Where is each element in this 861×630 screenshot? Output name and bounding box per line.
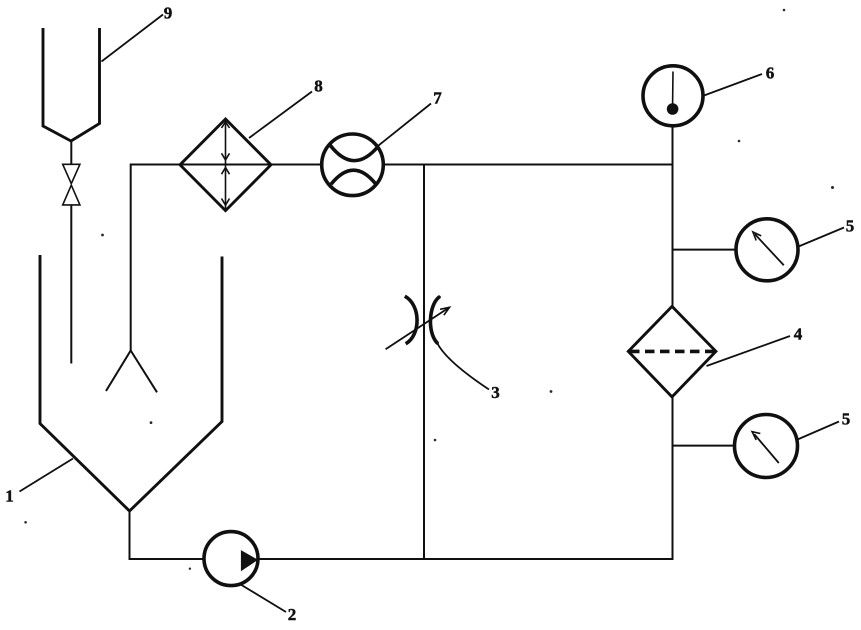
wire valve drip pipe into tank 1 (70, 205, 72, 364)
leader line 9 (102, 15, 164, 62)
valve (shut-off, bowtie) (63, 164, 80, 205)
wire tank9 to valve (70, 140, 72, 165)
filter 8 arrowhead down (upper middle) (222, 153, 230, 160)
leader line 6 (704, 74, 762, 96)
pressure gauge 5 (lower circle) (735, 415, 798, 478)
gauge 5 upper needle arrowhead (753, 232, 761, 241)
scan speck (24, 521, 27, 524)
scan speck (189, 568, 191, 570)
scan speck (550, 390, 553, 393)
svg-text:1: 1 (5, 487, 14, 506)
flow meter 7 lower arc (331, 170, 376, 184)
scan speck (434, 439, 437, 442)
wire right riser (thermometer down to filter 4) (672, 126, 674, 307)
pump 2 (circle) (204, 532, 258, 586)
diffuser Y outlet (106, 351, 157, 393)
wire stub to gauge 5 (lower) (673, 445, 735, 447)
leader line 7 (379, 104, 432, 146)
thermometer 6 bulb (667, 103, 679, 115)
filter 8 arrowhead up (lower middle) (222, 168, 230, 175)
scan speck (783, 9, 786, 12)
tank 1 (main reservoir with funnel bottom) (40, 255, 222, 511)
throttle valve 3 left arc (405, 296, 417, 344)
svg-text:8: 8 (314, 77, 323, 96)
flow meter 7 upper arc (330, 145, 378, 161)
svg-text:7: 7 (433, 89, 442, 108)
filter 4 dashed element line (630, 350, 714, 354)
leader line 2 (242, 585, 287, 612)
svg-text:9: 9 (164, 4, 173, 23)
thermometer 6 stem (672, 72, 674, 104)
throttle valve 3 adjustment arrow (386, 307, 450, 349)
leader line 1 (20, 459, 74, 492)
leader line 3 (curved) (437, 343, 489, 390)
wire middle riser (node to bottom line) (423, 165, 425, 560)
wire tank 1 outlet and bottom line left of pump (130, 510, 205, 559)
wire bottom line right of pump up right riser corner (258, 397, 673, 559)
wire stub to gauge 5 (upper) (673, 249, 737, 251)
leader line 4 (707, 336, 791, 366)
scan speck (150, 421, 153, 424)
scan speck (101, 234, 104, 237)
filter 4 (diamond) (628, 306, 716, 397)
thermometer 6 (circle) (643, 66, 703, 126)
svg-text:2: 2 (288, 605, 297, 624)
wire top line (right section to right riser) (383, 164, 672, 166)
flow meter 7 (circle) (322, 134, 384, 196)
svg-text:5: 5 (846, 217, 855, 236)
throttle valve 3 right arc (430, 297, 439, 343)
svg-text:5: 5 (842, 410, 851, 429)
filter 8 arrowhead up (top) (222, 122, 230, 128)
tank 9 (supply reservoir) (43, 28, 100, 141)
wire return line (top-left corner down into tank 1) (131, 165, 322, 351)
scan speck (831, 186, 834, 189)
svg-text:6: 6 (766, 64, 775, 83)
pressure gauge 5 (upper circle) (736, 219, 798, 281)
leader line 5 (upper) (799, 228, 845, 247)
filter 8 internal vertical line (225, 119, 227, 211)
scan speck (738, 140, 741, 143)
filter 8 (diamond) (180, 119, 271, 211)
svg-text:4: 4 (794, 325, 803, 344)
gauge 5 lower needle (754, 434, 779, 463)
leader line 5 (lower) (798, 422, 840, 440)
gauge 5 upper needle (755, 234, 784, 265)
gauge 5 lower needle arrowhead (752, 432, 760, 440)
leader line 8 (249, 92, 312, 139)
filter 8 arrowhead down (bottom) (222, 199, 230, 206)
pump 2 flow triangle (241, 550, 258, 571)
svg-text:3: 3 (491, 383, 500, 402)
throttle valve 3 arrowhead (440, 307, 449, 315)
